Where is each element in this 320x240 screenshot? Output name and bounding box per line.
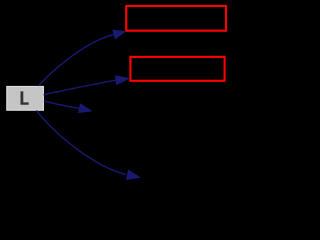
arrowhead 1 xyxy=(112,30,126,40)
red rectangle node 2 xyxy=(130,57,224,81)
red rectangle node 1 (top) xyxy=(126,6,226,31)
edge L -> hidden node 3 (short arrow) xyxy=(44,101,93,113)
edge L -> rect1 (curved up) xyxy=(38,30,126,87)
arrowhead 3 xyxy=(78,103,93,113)
arrowhead 2 xyxy=(115,75,131,85)
edge L -> rect2 xyxy=(44,75,131,95)
edge L -> hidden node 4 (long curve down) xyxy=(37,110,141,180)
node L (gray box) xyxy=(7,87,44,111)
arrowhead 4 xyxy=(126,169,141,180)
